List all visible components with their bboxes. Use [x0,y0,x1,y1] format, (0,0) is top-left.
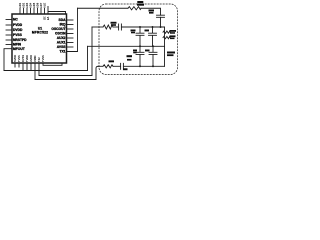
pin NC (left, pin stub) [6,18,18,22]
svg-text:SDA: SDA [59,18,67,22]
resistor R1 on matching rail [103,25,113,29]
wire R2 to C4 [113,65,121,67]
label R1 [111,22,117,26]
svg-text:DVSS: DVSS [21,55,25,62]
wire top pin EA to top-right pin [44,7,66,21]
wire bottom pin DVSS to rail y70.5 [22,63,24,71]
svg-text:IRQ: IRQ [60,23,66,27]
svg-text:AUX1: AUX1 [57,41,66,45]
label coil lower [170,35,176,39]
pin AVSS (right) [57,45,73,49]
IC U1 MFRC522 body [12,14,67,63]
TX1 rail y8.25 [78,7,129,9]
pin PVDD (left) [6,23,23,27]
inductor L0 on TX1 rail [128,7,141,10]
pin SDA (right) [59,18,73,22]
label R2 [109,60,115,62]
svg-text:MFOUT: MFOUT [13,47,25,51]
top pin stubs D1..D7 with rotated labels [18,2,47,14]
antenna coil La (upper half) [163,31,170,33]
wire bottom pin to rail y70.5 [26,63,28,71]
svg-text:AVSS: AVSS [57,45,67,49]
resistor R2 on RX tap rail [103,65,113,68]
capacitor C4 (series, vertical plates) [121,63,124,69]
pin IRQ (right) [60,23,73,27]
pin DVDD (left) [6,28,23,32]
ground rail y70.5 (MFOUT/DVSS bus) [4,70,88,72]
wire C1 to antenna terminal [121,26,164,28]
capacitor C1 (series, vertical plates) [119,24,122,30]
capacitor C3b (shunt from rail 46.3) [145,46,157,66]
svg-text:AUX2: AUX2 [57,36,66,40]
pin AUX2 (right) [57,36,73,40]
svg-text:AD6: AD6 [36,2,40,8]
wire C4 to antenna bottom terminal [123,65,164,67]
svg-text:ALE: ALE [43,3,47,8]
wire C0 to matching rail [160,17,162,27]
antenna coil Lb (lower half) [163,36,170,38]
pin TX1 (right) + wire up to TX rail [59,8,77,53]
wire vertical x96 from RX tap rail [96,66,98,79]
RX tap rail y66.3 [98,65,103,67]
RX rail y46.3 [88,45,165,47]
pin OSCIN (right) [55,32,73,36]
pin PVSS (left) [6,33,23,37]
pin AUX1 (right) [57,41,73,45]
junction dots [139,26,162,67]
svg-text:VMID: VMID [33,55,37,62]
svg-text:AD5: AD5 [32,2,36,8]
pin OSCOUT (right) [51,27,73,31]
svg-text:PVSS: PVSS [13,33,23,37]
wire vertical x87.5 from RX rail corner [87,46,89,70]
antenna dashed outline box [99,4,178,75]
capacitor C2b (shunt from rail 27) [145,27,157,46]
svg-text:AD1: AD1 [18,2,22,8]
antenna feed vertical x164.5 [164,27,166,66]
label antenna [167,52,175,57]
svg-text:TX2: TX2 [37,57,41,62]
wire bottom pin to rail y70.5 [30,63,32,71]
svg-text:TVDD: TVDD [25,55,29,62]
svg-text:OSCOUT: OSCOUT [51,27,65,31]
wire vertical x92 from TX matching rail [91,27,93,76]
label below RX rail [123,68,128,70]
svg-text:TX1: TX1 [59,50,65,54]
wire bottom pin to rail y79.5 [34,63,36,80]
capacitor C3a (shunt from rail 46.3) [133,46,144,66]
svg-text:TVSS: TVSS [41,55,45,62]
svg-text:NRSTPD: NRSTPD [13,38,27,42]
wire TX1 rail to C0 [141,8,161,15]
pin NRSTPD (left) [6,38,27,42]
svg-text:PVDD: PVDD [13,23,23,27]
svg-text:AVDD: AVDD [29,55,33,62]
capacitor C0 (series, horizontal plates) [149,10,165,18]
svg-text:MFRC522: MFRC522 [32,30,48,34]
label C4 [127,55,133,60]
TX matching rail y27 [92,26,103,28]
svg-text:TVSS: TVSS [17,55,21,62]
svg-text:AD7: AD7 [39,2,43,8]
wire bottom pin to rail y75.5 [38,63,40,76]
rail y79.5 bus [35,79,96,81]
svg-text:OSCIN: OSCIN [55,32,66,36]
bottom pin stubs with rotated labels inside [13,55,45,67]
capacitor C2a (shunt from rail 27) [131,27,145,46]
rail y75.5 bus [39,75,92,77]
svg-text:AD2: AD2 [22,2,26,8]
svg-text:SVDD: SVDD [13,55,17,62]
svg-text:NC: NC [13,18,18,22]
svg-text:DVDD: DVDD [13,28,23,32]
wire resistor to C1 [113,26,119,28]
svg-text:EA: EA [47,16,50,20]
label L0 on dashed edge [137,1,144,6]
svg-text:AD3: AD3 [25,2,29,8]
wire bottom pin TVSS jumper to second TVSS pin [43,63,62,65]
pin MFOUT (left) + wire wrapping to bottom rail [4,47,25,71]
svg-text:AD4: AD4 [29,2,33,8]
label coil upper [170,30,177,34]
pin MFIN (left) [6,43,22,47]
